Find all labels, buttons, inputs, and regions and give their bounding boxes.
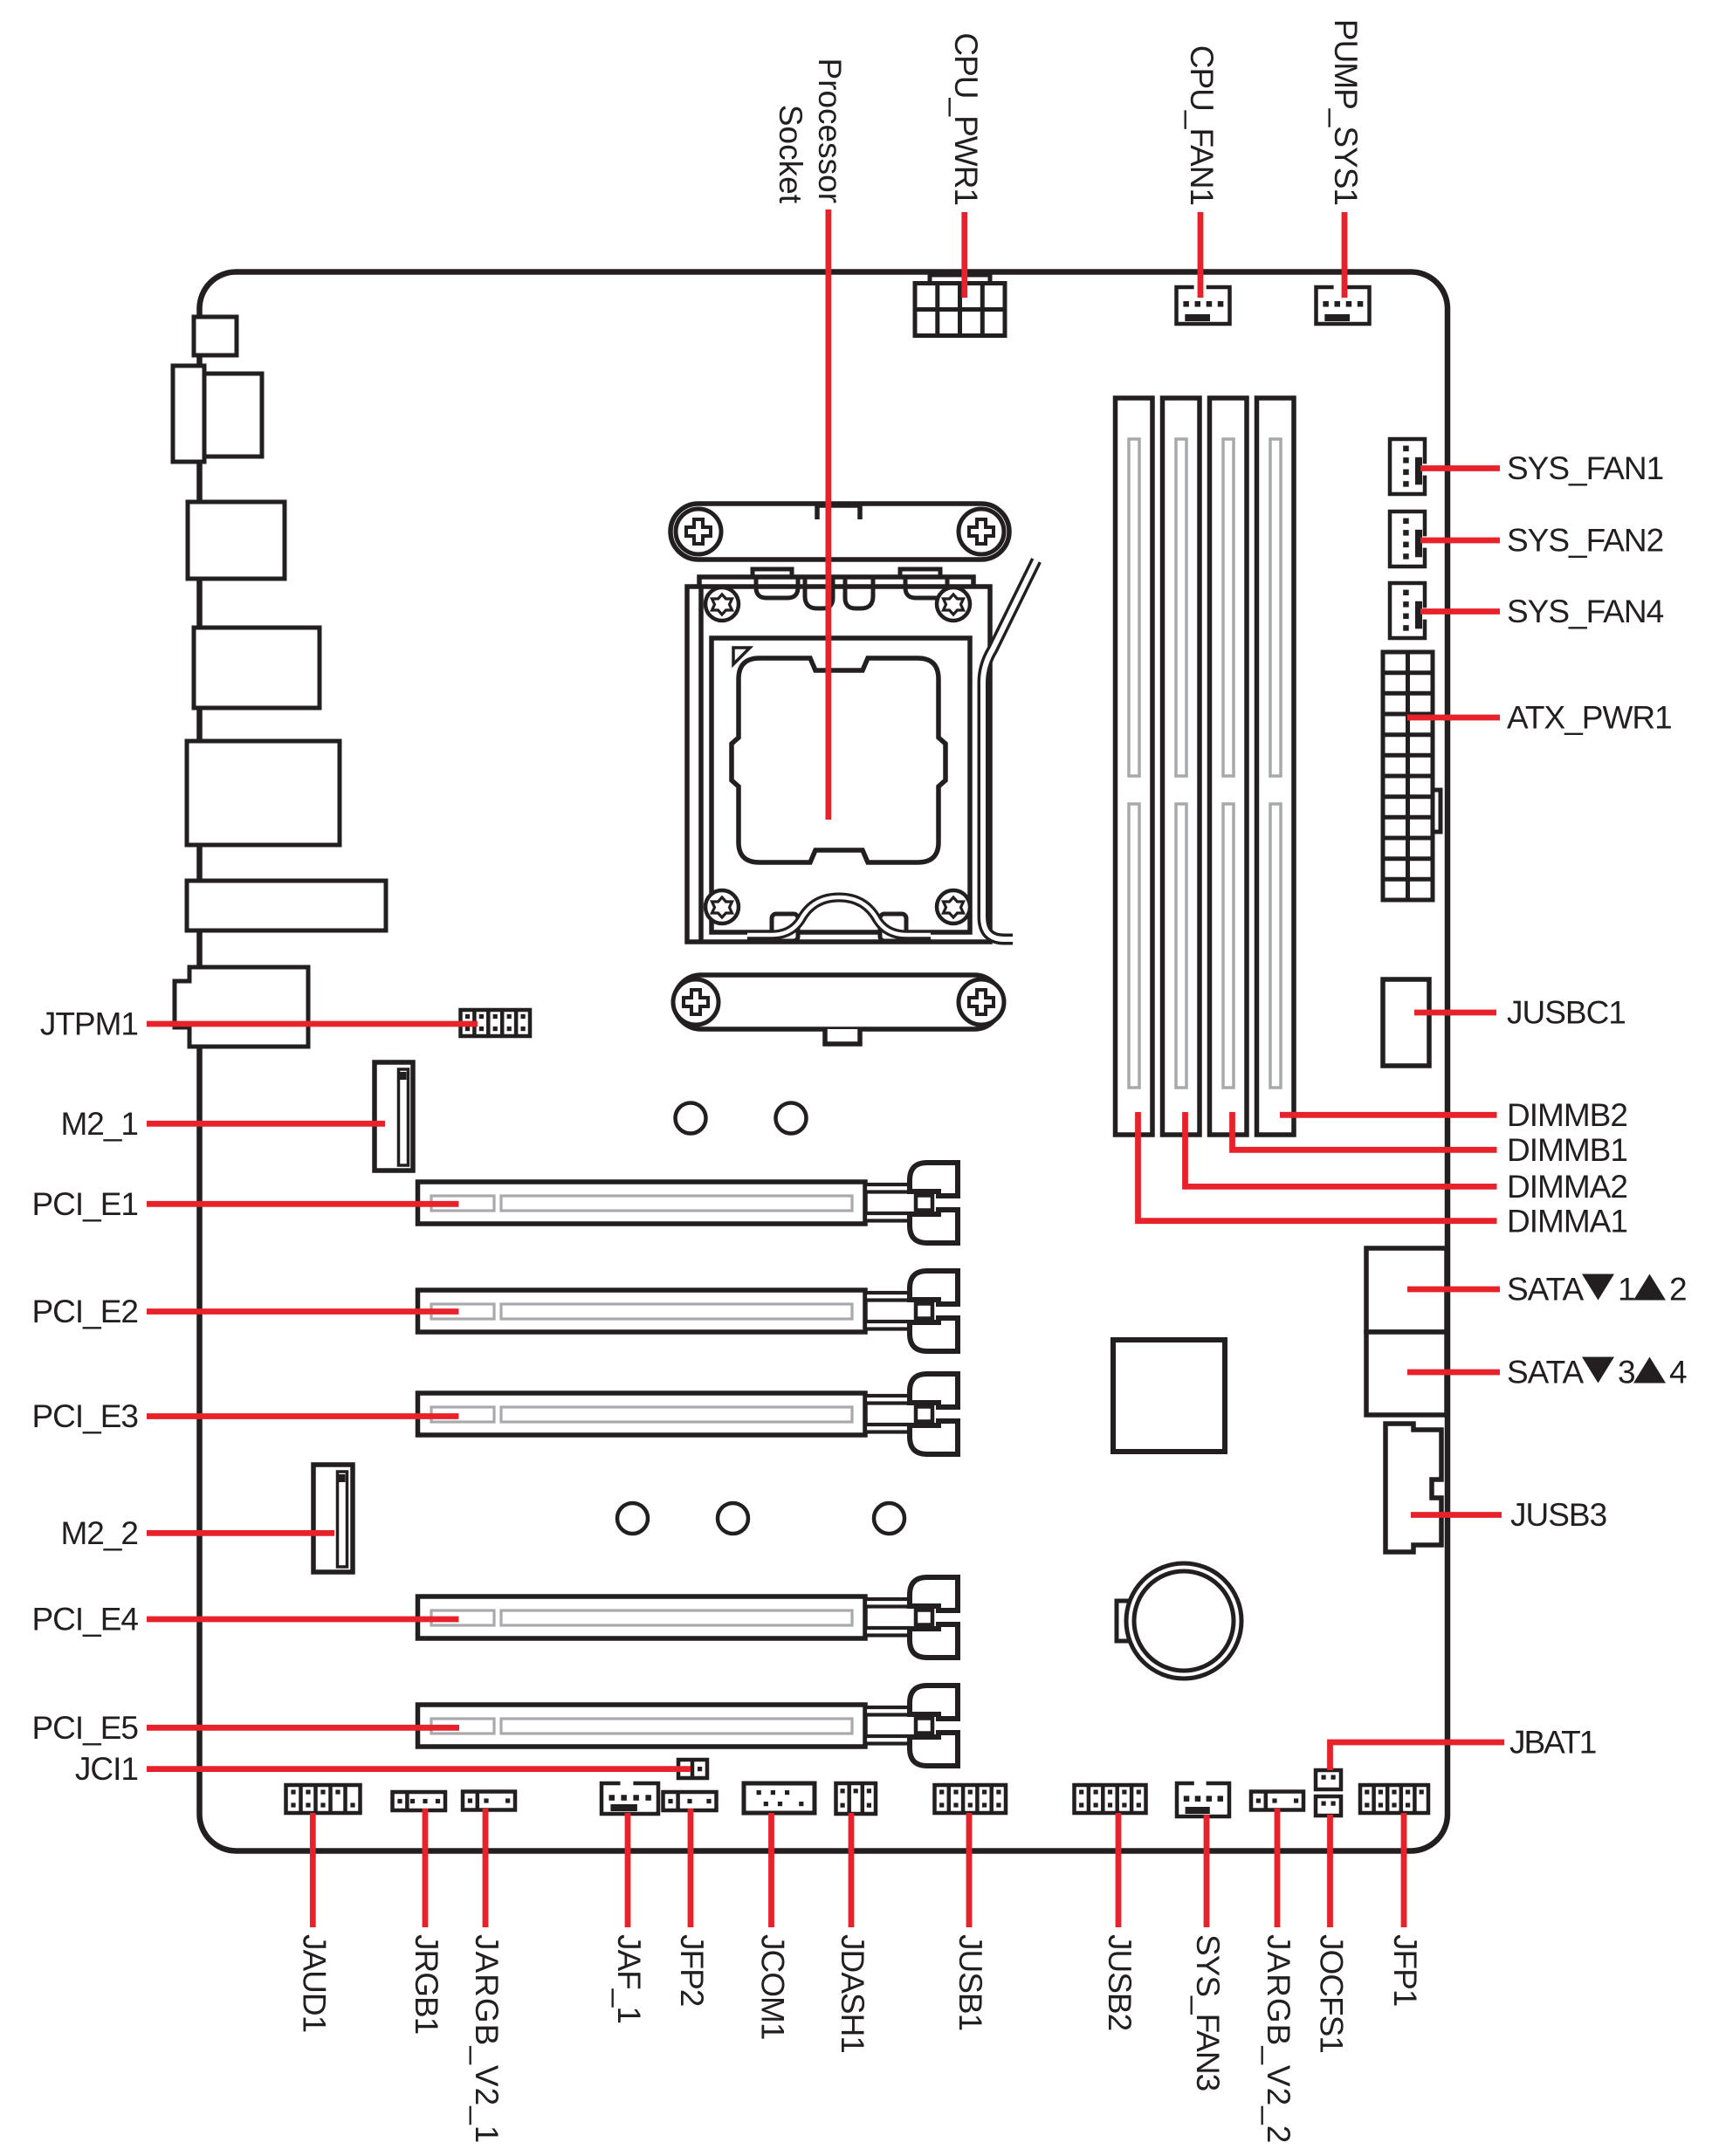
socket inner frame — [712, 638, 970, 932]
svg-text:3: 3 — [1618, 1355, 1636, 1390]
svg-text:DIMMB2: DIMMB2 — [1507, 1097, 1627, 1133]
leader JUSB3 — [1411, 1512, 1502, 1518]
M.2 slot M2_2 — [313, 1465, 353, 1572]
memory slot DIMMA1 — [1116, 398, 1153, 1135]
leader JFP2 — [688, 1809, 694, 1927]
CPU backplate window — [732, 658, 945, 862]
svg-text:SYS_FAN3: SYS_FAN3 — [1190, 1934, 1226, 2091]
retention latch of PCI_E4 — [865, 1577, 958, 1658]
jumper JOCFS1 safe boot — [1316, 1796, 1341, 1816]
expansion slot PCI_E3 — [418, 1393, 866, 1435]
connector JUSB2 USB header — [1075, 1785, 1146, 1813]
svg-text:PCI_E3: PCI_E3 — [31, 1398, 138, 1434]
leader PCI_E4 — [147, 1617, 458, 1623]
phillips screw — [676, 509, 721, 554]
leader DIMMA2 — [1186, 1112, 1497, 1186]
leader DIMMB1 — [1233, 1112, 1497, 1150]
svg-text:PCI_E2: PCI_E2 — [31, 1294, 138, 1329]
leader JUSB2 — [1116, 1813, 1122, 1927]
jumper JBAT1 clear CMOS — [1316, 1770, 1341, 1789]
leader PCI_E2 — [147, 1308, 458, 1315]
phillips screw — [959, 979, 1004, 1025]
svg-text:2: 2 — [1669, 1272, 1688, 1308]
connector JARGB_V2_1 header — [463, 1792, 515, 1810]
svg-text:SATA: SATA — [1507, 1355, 1584, 1390]
svg-text:PCI_E5: PCI_E5 — [31, 1710, 138, 1746]
retention latch of PCI_E5 — [865, 1686, 958, 1766]
svg-text:SYS_FAN4: SYS_FAN4 — [1507, 594, 1664, 629]
leader JDASH1 — [849, 1813, 855, 1927]
svg-text:JTPM1: JTPM1 — [40, 1006, 138, 1042]
svg-text:JCOM1: JCOM1 — [755, 1934, 791, 2039]
connector CPU_PWR1 8-pin power — [915, 275, 1005, 336]
svg-text:CPU_PWR1: CPU_PWR1 — [948, 32, 984, 205]
svg-text:JARGB_V2_2: JARGB_V2_2 — [1261, 1934, 1296, 2144]
connector JARGB_V2_2 header — [1251, 1792, 1303, 1810]
leader JAUD1 — [310, 1813, 316, 1927]
svg-text:SYS_FAN1: SYS_FAN1 — [1507, 450, 1663, 486]
battery CR2032 — [1126, 1563, 1241, 1679]
leader PUMP_SYS1 — [1342, 212, 1348, 298]
leader PCI_E3 — [147, 1413, 458, 1419]
leader M2_1 — [147, 1121, 385, 1127]
connector JFP2 header — [664, 1792, 717, 1810]
svg-text:JARGB_V2_1: JARGB_V2_1 — [469, 1934, 505, 2144]
svg-text:4: 4 — [1669, 1355, 1688, 1390]
rear I/O connector USB stack — [173, 366, 262, 462]
connector JCI1 chassis intrusion — [678, 1760, 707, 1778]
svg-text:JFP1: JFP1 — [1387, 1934, 1423, 2006]
leader JCI1 — [147, 1766, 691, 1772]
retention latch of PCI_E3 — [865, 1374, 958, 1454]
svg-text:JCI1: JCI1 — [75, 1751, 138, 1787]
torx screw — [705, 890, 739, 924]
leader Processor Socket — [826, 209, 832, 820]
memory slot DIMMA2 — [1163, 398, 1200, 1135]
socket load lever — [983, 560, 1036, 939]
connector SYS_FAN3 header — [1177, 1783, 1229, 1816]
expansion slot PCI_E4 — [418, 1596, 866, 1638]
leader SATA 1/2 — [1407, 1287, 1500, 1293]
expansion slot PCI_E5 — [418, 1705, 866, 1747]
motherboard outline — [200, 272, 1448, 1851]
svg-text:Processor: Processor — [812, 58, 848, 203]
connector JAF_1 header — [602, 1783, 658, 1814]
rear I/O connector HDMI/DP block — [194, 628, 320, 708]
leader ATX_PWR1 — [1407, 715, 1500, 721]
svg-text:JBAT1: JBAT1 — [1509, 1725, 1596, 1761]
leader JTPM1 — [147, 1021, 478, 1027]
connector JDASH1 header — [836, 1783, 877, 1814]
mounting hole — [676, 1103, 706, 1134]
connector JUSB3 USB header — [1386, 1424, 1441, 1552]
CPU socket Processor Socket — [670, 504, 1036, 1044]
leader JBAT1 — [1331, 1742, 1505, 1770]
svg-text:JDASH1: JDASH1 — [835, 1934, 870, 2053]
leader JARGB_V2_1 — [483, 1809, 489, 1927]
leader JUSBC1 — [1414, 1010, 1496, 1016]
torx screw — [705, 587, 739, 621]
connector JFP1 front panel header — [1360, 1785, 1428, 1813]
leader SYS_FAN2 — [1420, 538, 1500, 544]
rear I/O connector USB row — [187, 881, 386, 930]
leader SATA 3/4 — [1407, 1370, 1500, 1376]
pin-1 arrow mark — [733, 648, 750, 664]
svg-text:JUSB2: JUSB2 — [1102, 1934, 1138, 2030]
mounting hole — [874, 1503, 904, 1534]
M.2 slot M2_1 — [375, 1062, 413, 1171]
memory slot DIMMB1 — [1210, 398, 1248, 1135]
svg-text:SATA: SATA — [1507, 1272, 1584, 1308]
battery holder tab — [1117, 1601, 1138, 1641]
torx screw — [937, 587, 970, 621]
rear I/O connector audio block — [175, 967, 308, 1047]
expansion slot PCI_E1 — [418, 1182, 866, 1224]
rear I/O connector PS2/USB block — [194, 317, 237, 355]
svg-text:JUSBC1: JUSBC1 — [1507, 995, 1626, 1031]
connector JAUD1 audio header — [286, 1785, 361, 1813]
connector JRGB1 header — [393, 1792, 446, 1810]
leader DIMMB2 — [1280, 1112, 1497, 1118]
leader JCOM1 — [768, 1813, 774, 1927]
expansion slot PCI_E2 — [418, 1290, 866, 1332]
svg-text:PCI_E1: PCI_E1 — [31, 1186, 138, 1222]
leader SYS_FAN1 — [1420, 465, 1500, 471]
svg-text:M2_2: M2_2 — [60, 1515, 138, 1551]
socket bottom mounting bracket — [674, 975, 1001, 1044]
svg-text:ATX_PWR1: ATX_PWR1 — [1507, 700, 1672, 736]
leader SYS_FAN3 — [1204, 1815, 1210, 1927]
leader DIMMA1 — [1138, 1112, 1497, 1221]
socket retention wire — [747, 897, 931, 935]
connector CPU_FAN1 header — [1177, 287, 1230, 324]
svg-text:JRGB1: JRGB1 — [409, 1934, 444, 2034]
connector SYS_FAN2 header — [1390, 512, 1425, 566]
rear I/O connector video out — [188, 502, 285, 579]
svg-text:DIMMB1: DIMMB1 — [1507, 1132, 1627, 1168]
retention latch of PCI_E2 — [865, 1271, 958, 1351]
connector SATA 1/2 ports — [1366, 1248, 1447, 1332]
svg-text:JAF_1: JAF_1 — [611, 1934, 647, 2023]
svg-text:Socket: Socket — [773, 105, 808, 204]
mounting hole — [776, 1103, 807, 1134]
svg-text:M2_1: M2_1 — [60, 1106, 138, 1142]
svg-text:1: 1 — [1618, 1272, 1636, 1308]
connector JCOM1 serial header — [744, 1783, 815, 1813]
connector JUSBC1 USB-C header — [1383, 979, 1429, 1066]
socket retention frame — [687, 577, 990, 942]
leader SYS_FAN4 — [1420, 608, 1500, 615]
svg-text:JOCFS1: JOCFS1 — [1314, 1934, 1350, 2053]
leader CPU_PWR1 — [961, 212, 967, 298]
connector JUSB1 USB header — [935, 1785, 1007, 1813]
socket top mounting bracket — [670, 504, 1009, 560]
leader JUSB1 — [966, 1813, 973, 1927]
svg-text:DIMMA1: DIMMA1 — [1507, 1204, 1627, 1239]
svg-text:JUSB1: JUSB1 — [952, 1934, 988, 2030]
connector SATA 3/4 ports — [1366, 1332, 1447, 1415]
connector SYS_FAN4 header — [1390, 583, 1425, 638]
mounting hole — [718, 1503, 748, 1534]
phillips screw — [959, 509, 1004, 554]
svg-text:SYS_FAN2: SYS_FAN2 — [1507, 523, 1663, 559]
socket top clips — [753, 569, 947, 608]
torx screw — [937, 890, 970, 924]
memory slot DIMMB2 — [1257, 398, 1295, 1135]
leader JFP1 — [1401, 1813, 1407, 1927]
leader JOCFS1 — [1327, 1815, 1333, 1927]
chipset — [1113, 1340, 1225, 1452]
rear I/O connector LAN/USB block — [187, 741, 340, 845]
mounting hole — [617, 1503, 648, 1534]
leader PCI_E5 — [147, 1725, 459, 1731]
retention latch of PCI_E1 — [865, 1163, 958, 1243]
svg-text:JUSB3: JUSB3 — [1510, 1497, 1606, 1533]
connector SYS_FAN1 header — [1390, 439, 1425, 494]
connector JTPM1 header — [461, 1010, 531, 1036]
leader JAF_1 — [625, 1813, 631, 1927]
leader PCI_E1 — [147, 1201, 458, 1207]
phillips screw — [673, 979, 719, 1025]
svg-text:JFP2: JFP2 — [674, 1934, 710, 2006]
svg-text:CPU_FAN1: CPU_FAN1 — [1184, 45, 1220, 205]
svg-text:PUMP_SYS1: PUMP_SYS1 — [1328, 19, 1364, 205]
socket bottom clips — [772, 914, 906, 941]
svg-text:DIMMA2: DIMMA2 — [1507, 1169, 1627, 1205]
leader JRGB1 — [423, 1809, 429, 1927]
svg-text:PCI_E4: PCI_E4 — [31, 1602, 138, 1638]
connector ATX_PWR1 24-pin power — [1383, 652, 1441, 900]
leader JARGB_V2_2 — [1275, 1809, 1281, 1927]
connector PUMP_SYS1 header — [1317, 287, 1370, 324]
leader CPU_FAN1 — [1198, 212, 1204, 298]
leader M2_2 — [147, 1530, 334, 1536]
svg-text:JAUD1: JAUD1 — [296, 1934, 332, 2032]
